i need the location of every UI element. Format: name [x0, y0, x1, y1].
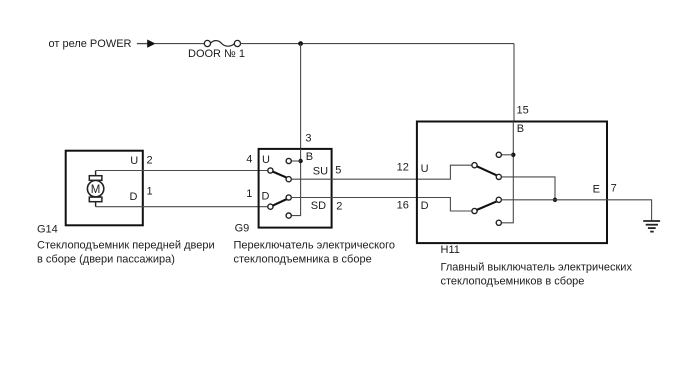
wire: G9 B branch to upper contact	[291, 160, 300, 162]
wire: fuse to H11 corner (top bus)	[241, 43, 515, 45]
svg-text:стеклоподъемника в сборе: стеклоподъемника в сборе	[234, 254, 372, 266]
wire: arrow feed from POWER relay	[137, 40, 156, 48]
wire: drop to G9 pin 3	[300, 44, 302, 149]
svg-text:B: B	[306, 151, 313, 163]
wire: G14 pin 2 (U) to G9 pin 4	[96, 170, 268, 172]
svg-text:Стеклоподъемник передней двери: Стеклоподъемник передней двери	[37, 240, 215, 252]
svg-text:12: 12	[397, 162, 409, 174]
junction: H11 E line	[553, 198, 557, 202]
svg-text:U: U	[421, 163, 429, 175]
svg-text:от реле POWER: от реле POWER	[49, 38, 132, 50]
contact: G9 U pivot	[268, 168, 273, 173]
contact: H11 upper B contact	[496, 152, 501, 157]
svg-text:1: 1	[246, 188, 252, 200]
svg-text:U: U	[130, 155, 138, 167]
svg-text:SU: SU	[313, 166, 328, 178]
svg-text:2: 2	[147, 154, 153, 166]
contact: H11 lower B contact	[496, 220, 501, 225]
svg-text:M: M	[91, 184, 101, 196]
motor M (window motor in G14)	[87, 171, 103, 207]
wire: H11 B branch to upper contact	[502, 154, 514, 156]
svg-text:15: 15	[517, 104, 529, 116]
svg-text:U: U	[262, 154, 270, 166]
contact: H11 U pivot	[472, 163, 477, 168]
contact: H11 D pivot	[472, 208, 477, 213]
svg-text:1: 1	[147, 185, 153, 197]
junction: H11 B branch	[511, 153, 515, 157]
svg-text:SD: SD	[311, 200, 326, 212]
contact: G9 SU contact	[286, 177, 291, 182]
svg-text:B: B	[517, 123, 524, 135]
wire: H11 upper output to E line	[502, 177, 556, 200]
component G9 box	[259, 149, 332, 228]
wire: B net inside G9 (from pin 3 down)	[291, 149, 300, 216]
svg-text:16: 16	[397, 200, 409, 212]
svg-text:G14: G14	[37, 224, 58, 236]
svg-text:Переключатель электрического: Переключатель электрического	[234, 240, 396, 252]
switch arm: G9 upper (U to SU)	[273, 172, 289, 179]
component H11 box	[417, 122, 607, 244]
svg-text:4: 4	[246, 154, 252, 166]
junction: top bus to G9 pin 3	[298, 41, 303, 46]
contact: H11 upper output contact	[496, 174, 501, 179]
switch arm: G9 lower (D to SD)	[273, 199, 289, 206]
wire: G9 pin 2 (SD) to H11 pin 16	[291, 198, 472, 212]
svg-text:7: 7	[611, 183, 617, 195]
wire: B net inside H11 (from pin 15 down)	[502, 122, 514, 223]
ground	[643, 221, 660, 232]
contact: G9 upper B contact	[286, 158, 291, 163]
contact: G9 SD contact	[286, 195, 291, 200]
svg-text:стеклоподъемников в сборе: стеклоподъемников в сборе	[441, 276, 585, 288]
wire: drop to H11 pin 15	[513, 44, 515, 122]
wire: E net to ground	[502, 200, 652, 221]
svg-text:2: 2	[336, 201, 342, 213]
svg-text:D: D	[130, 191, 138, 203]
svg-text:D: D	[262, 191, 270, 203]
svg-text:DOOR № 1: DOOR № 1	[188, 48, 245, 60]
svg-text:5: 5	[335, 164, 341, 176]
switch arm: H11 lower	[477, 201, 498, 210]
svg-text:Главный выключатель электричес: Главный выключатель электрических	[441, 262, 633, 274]
fuse DOOR № 1	[188, 40, 245, 60]
svg-text:в сборе (двери пассажира): в сборе (двери пассажира)	[37, 254, 175, 266]
junction: G9 B branch	[298, 159, 302, 163]
svg-text:G9: G9	[235, 223, 250, 235]
wire: G9 pin 5 (SU) to H11 pin 12	[291, 165, 472, 179]
wire: arrow to fuse	[155, 43, 204, 45]
svg-text:3: 3	[305, 133, 311, 145]
svg-text:H11: H11	[441, 244, 460, 256]
contact: G9 lower B contact	[286, 213, 291, 218]
svg-text:D: D	[421, 200, 429, 212]
contact: G9 D pivot	[268, 204, 273, 209]
component G14 box	[66, 151, 143, 226]
contact: H11 E contact	[496, 197, 501, 202]
wire: G14 pin 1 (D) to G9 pin 1	[96, 206, 268, 208]
svg-text:E: E	[593, 184, 600, 196]
switch arm: H11 upper	[477, 166, 498, 176]
